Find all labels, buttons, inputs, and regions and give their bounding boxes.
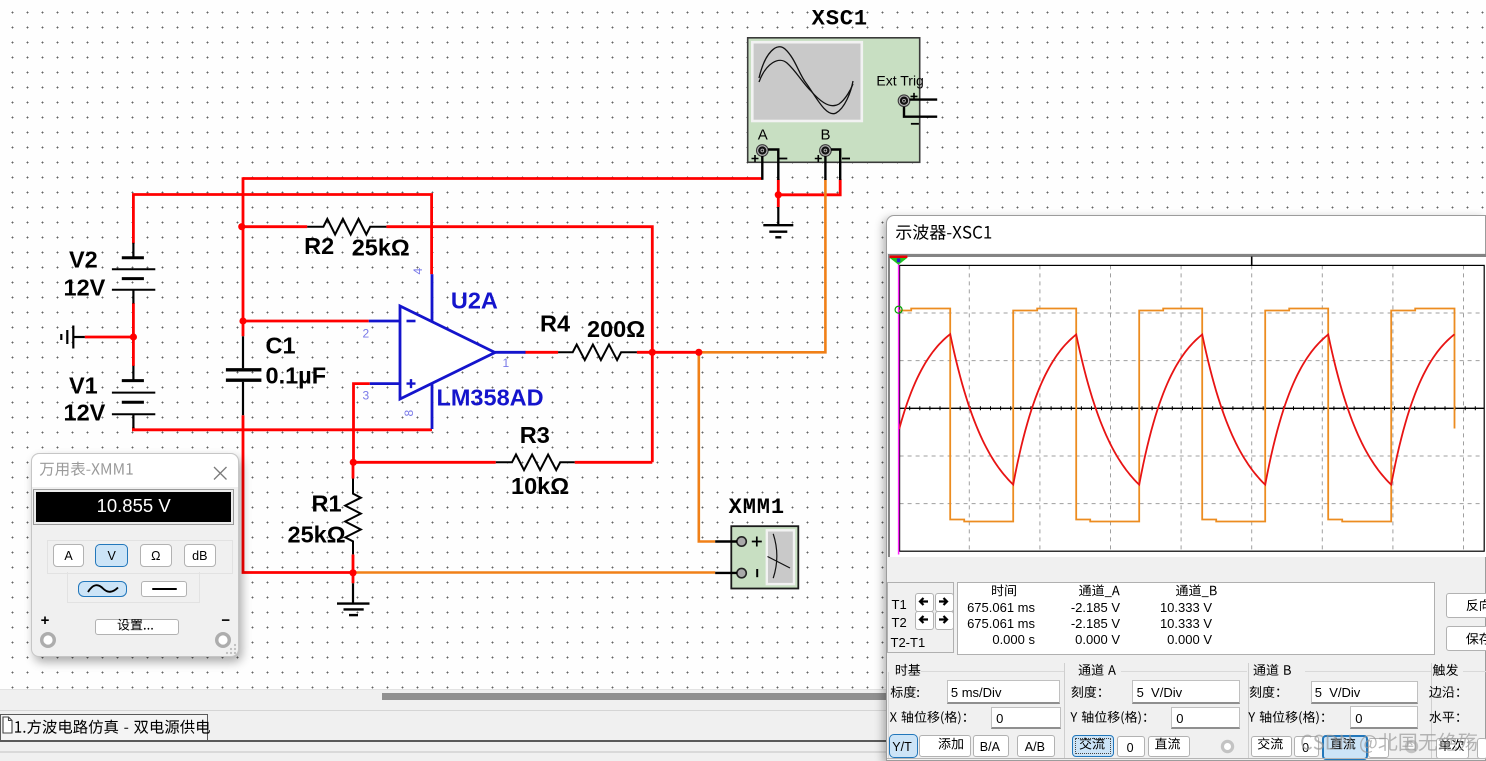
svg-text:XMM1: XMM1 [729,495,785,520]
junction node meter tap [695,349,702,356]
op-amp input stubs blue [369,320,400,323]
A minus mark [779,158,787,160]
svg-text:0.1µF: 0.1µF [266,363,327,389]
multimeter XMM1 symbol [731,526,798,588]
svg-text:4: 4 [411,268,425,275]
svg-text:25kΩ: 25kΩ [352,234,410,260]
terminal A [757,145,769,157]
wire pin3 to node B [354,384,370,463]
ground (scope) [763,207,793,237]
wire orange node B to XMM1 minus [353,571,715,574]
op-amp plus sign [407,379,416,388]
svg-text:12V: 12V [64,400,106,426]
wire B+ black [824,156,826,180]
Ext Trig plus mark [911,93,918,100]
op-amp VEE pin stub [431,383,434,429]
wire ground to battery mid [85,336,134,339]
tab page icon [2,716,13,734]
svg-text:2: 2 [363,326,370,340]
op-amp output stub [495,351,526,354]
B plus mark [815,155,822,162]
horizontal scrollbar [0,689,1486,703]
tab bar [0,702,1486,761]
A plus mark [752,155,759,162]
resistor R2 [307,219,386,235]
wire A- black L [768,150,778,181]
oscilloscope XSC1 symbol [748,38,920,163]
multimeter window XMM1 [31,453,239,657]
junction node battery mid [130,333,137,340]
wire orange to XMM1 plus [699,352,715,541]
wire R3 left [354,461,496,464]
ground (battery mid, rotated) [61,326,85,349]
op-amp minus sign [407,320,416,323]
junction node ground rail [349,569,356,576]
resistor R3 [496,455,575,471]
wire V2+ vertical to top rail [132,195,135,244]
wire battery mid vertical [132,303,135,366]
wire orange output to scope B [699,179,826,352]
wire R3 right [575,461,653,464]
wire XMM1 plus lead black [715,540,737,542]
wire scope A- loop [778,179,840,195]
svg-text:12V: 12V [64,275,106,301]
resistor R1 [345,478,361,555]
Ext Trig minus mark [911,123,919,125]
svg-text:R4: R4 [540,311,570,337]
wire R2 right to output node [386,227,652,463]
wire VEE bottom rail [133,428,432,430]
battery V2 [112,243,155,304]
terminal B [820,145,832,157]
wire top rail V2+ to VCC corner [132,195,432,275]
ground (below R1) [337,583,370,615]
svg-text:XSC1: XSC1 [812,7,868,32]
svg-text:U2A: U2A [451,287,498,313]
wire R1 top red stub [352,462,355,478]
svg-text:Ext Trig: Ext Trig [876,73,923,89]
wire inverting input [242,320,369,323]
svg-text:1: 1 [503,356,510,370]
wire output to R4 [525,351,559,354]
svg-text:V1: V1 [69,373,98,399]
wire vertical x=243 node [242,177,245,336]
svg-text:R2: R2 [304,233,334,259]
svg-text:3: 3 [363,389,370,403]
junction node R2-left [238,223,245,230]
resistor R4 [558,345,637,361]
svg-text:8: 8 [402,410,416,417]
svg-text:200Ω: 200Ω [587,316,645,342]
svg-text:10kΩ: 10kΩ [511,473,569,499]
B minus mark [842,158,850,160]
wire ext trig top [910,98,938,100]
wire R4 right to junction [637,351,699,354]
svg-text:B: B [821,127,831,144]
battery V1 [112,366,155,428]
junction node output [649,349,656,356]
svg-text:25kΩ: 25kΩ [288,521,346,547]
oscilloscope window XSC1 [886,215,1486,761]
wire ext trig bottom L [904,107,937,117]
svg-text:R1: R1 [312,490,342,516]
svg-text:R3: R3 [520,422,550,448]
Ext Trig terminal [898,95,910,107]
junction node B plus-input [350,459,357,466]
wire node A rail y=178.5 [243,177,762,180]
capacitor C1 [226,336,262,415]
active sheet tab [0,714,208,742]
wire C1 bottom to ground rail [243,415,353,572]
wire R1 bottom red stub [352,555,355,584]
junction node scope ground [775,191,782,198]
svg-text:LM358AD: LM358AD [437,385,544,411]
wire junction to scope ground [777,195,780,207]
wire R2 left [242,225,307,228]
junction node inverting input [239,317,246,324]
svg-text:A: A [758,127,768,144]
svg-text:V2: V2 [69,247,98,273]
wire XMM1 minus lead black [715,572,737,574]
svg-text:C1: C1 [266,332,296,358]
op-amp VCC pin stub [431,274,434,322]
op-amp U2A [400,306,495,399]
wire B- black L [831,150,840,181]
wire A+ black [761,156,763,180]
